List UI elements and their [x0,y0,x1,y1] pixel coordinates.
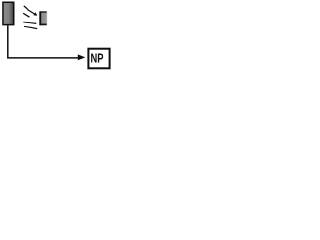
interference box left edge [39,11,41,25]
NP box [88,49,109,69]
ray lower swoosh 2 [24,26,37,29]
ray arrowhead [33,12,37,16]
ray upper [24,6,28,9]
ray lower swoosh 1 [23,22,36,24]
device (tall gray rectangle, top-left) [3,2,14,24]
arrowhead into NP box [78,54,86,60]
interference box fill [41,12,47,23]
ray middle short [23,13,29,17]
svg-text:NP: NP [91,52,104,66]
interference box bottom edge [41,24,47,26]
ray arrow shaft [27,9,34,14]
wire (down from device, then right) [8,25,79,58]
interference box top edge [41,11,47,12]
